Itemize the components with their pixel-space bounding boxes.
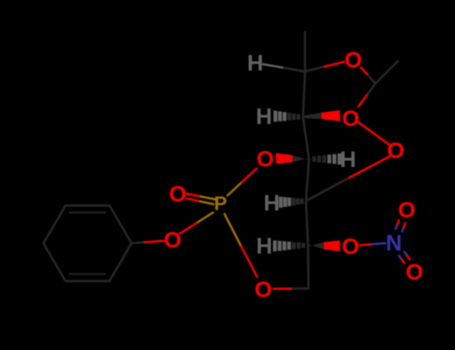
wire Omid-Obot bond (358, 122, 390, 145)
wire C1-On solid wedge (308, 240, 340, 251)
svg-text:O: O (164, 227, 182, 252)
svg-text:O: O (254, 277, 272, 302)
wire C3-H3 hash wedge (314, 154, 339, 165)
wire C2-C1 bond (306, 201, 308, 245)
wire N=On1 double bond (396, 220, 406, 231)
wire Oph-phenyl bond (132, 241, 165, 244)
svg-text:P: P (214, 193, 227, 215)
wire C1-H5 hash wedge (44, 169, 424, 302)
svg-text:O: O (387, 138, 405, 163)
svg-text:H: H (256, 104, 272, 129)
svg-text:O: O (342, 234, 360, 259)
svg-text:H: H (264, 190, 280, 215)
wire Obot-C2 bond (306, 157, 390, 202)
svg-text:N: N (386, 230, 402, 255)
svg-text:O: O (406, 260, 424, 285)
wire P-Oph bond (180, 213, 213, 234)
wire C4-C3 bond (303, 117, 309, 159)
wire N=On2 double bond (399, 252, 410, 263)
wire C3-Op3 solid wedge (276, 153, 309, 164)
wire C5-CH3 bond (304, 32, 306, 72)
wire P=O double bond (187, 194, 216, 205)
wire C5-C4 bond (303, 72, 305, 118)
svg-text:H: H (247, 51, 263, 76)
wire AcC-methyl bond (376, 61, 399, 84)
wire CH2-Op1 bond (274, 287, 309, 289)
wire Op1-P bond (225, 214, 258, 277)
wire C1-CH2 bond (307, 245, 310, 288)
wire C3-C2 bond (306, 159, 309, 201)
svg-text:O: O (398, 197, 416, 222)
wire C5-Otop bond (305, 62, 344, 72)
svg-text:O: O (345, 47, 363, 72)
svg-text:H: H (340, 147, 356, 172)
wire C2-H4 hash wedge (281, 197, 302, 208)
wire P-Op3 bond (228, 169, 257, 196)
wire Otop-AcC bond (361, 68, 376, 84)
wire C4-H2 hash wedge (275, 111, 298, 122)
wire C4-Omid solid wedge (303, 110, 340, 121)
svg-text:O: O (169, 181, 187, 206)
wire H1-C5 bond (263, 64, 305, 71)
svg-text:H: H (256, 234, 272, 259)
svg-text:O: O (342, 106, 360, 131)
svg-text:O: O (257, 147, 275, 172)
wire AcC-Omid bond (359, 84, 376, 107)
benzene ring C6H5 (44, 206, 132, 282)
wire On-N bond (360, 243, 386, 245)
